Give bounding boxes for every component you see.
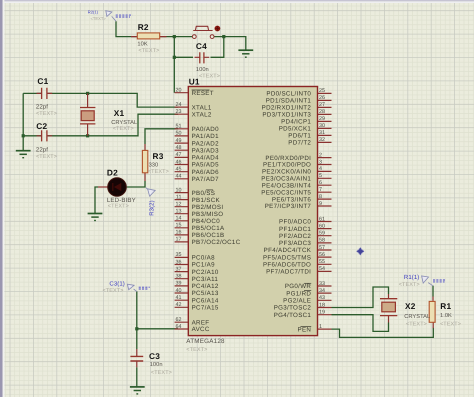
svg-text:59: 59 xyxy=(319,231,325,237)
svg-text:44: 44 xyxy=(176,174,182,180)
svg-text:<TEXT>: <TEXT> xyxy=(148,169,169,175)
svg-text:PB0/SS: PB0/SS xyxy=(192,190,216,197)
svg-text:XTAL2: XTAL2 xyxy=(192,111,212,118)
svg-text:PC6/A14: PC6/A14 xyxy=(192,297,219,304)
svg-text:42: 42 xyxy=(176,302,182,308)
svg-text:D2: D2 xyxy=(107,168,118,178)
svg-text:<TEXT>: <TEXT> xyxy=(186,347,207,353)
svg-text:<TEXT>: <TEXT> xyxy=(151,370,172,376)
svg-text:8: 8 xyxy=(319,194,322,200)
svg-text:PA0/AD0: PA0/AD0 xyxy=(192,126,219,133)
svg-text:PF4/ADC4/TCK: PF4/ADC4/TCK xyxy=(264,247,312,254)
svg-text:61: 61 xyxy=(319,216,325,222)
svg-text:PB3/MISO: PB3/MISO xyxy=(192,211,224,218)
svg-text:31: 31 xyxy=(319,130,325,136)
svg-text:29: 29 xyxy=(319,116,325,122)
svg-text:39: 39 xyxy=(176,281,182,287)
svg-text:100n: 100n xyxy=(150,362,163,368)
svg-text:PF3/ADC3: PF3/ADC3 xyxy=(279,240,311,247)
svg-text:43: 43 xyxy=(319,295,325,301)
svg-text:PA7/AD7: PA7/AD7 xyxy=(192,176,219,183)
svg-text:RESET: RESET xyxy=(192,90,214,97)
svg-text:41: 41 xyxy=(176,295,182,301)
svg-text:7: 7 xyxy=(319,187,322,193)
svg-text:12: 12 xyxy=(176,202,182,208)
svg-text:PG1/RD: PG1/RD xyxy=(286,290,311,297)
svg-text:PA1/AD1: PA1/AD1 xyxy=(192,133,219,140)
svg-text:PF0/ADC0: PF0/ADC0 xyxy=(279,219,311,226)
svg-text:PF6/ADC6/TDO: PF6/ADC6/TDO xyxy=(263,262,311,269)
svg-text:R2: R2 xyxy=(138,22,149,32)
svg-text:PA6/AD6: PA6/AD6 xyxy=(192,169,219,176)
svg-text:PG4/TOSC1: PG4/TOSC1 xyxy=(274,312,312,319)
svg-text:ATMEGA128: ATMEGA128 xyxy=(186,338,225,345)
svg-text:47: 47 xyxy=(176,152,182,158)
svg-text:R1(1): R1(1) xyxy=(404,274,420,281)
svg-text:51: 51 xyxy=(176,124,182,130)
svg-text:37: 37 xyxy=(176,266,182,272)
svg-text:PA4/AD4: PA4/AD4 xyxy=(192,155,219,162)
svg-text:XTAL1: XTAL1 xyxy=(192,104,212,111)
svg-text:PB5/OC1A: PB5/OC1A xyxy=(192,225,225,232)
svg-text:24: 24 xyxy=(176,102,182,108)
svg-text:40: 40 xyxy=(176,288,182,294)
svg-text:PC4/A12: PC4/A12 xyxy=(192,283,219,290)
svg-text:X2: X2 xyxy=(405,301,416,311)
svg-text:PF7/ADC7/TDI: PF7/ADC7/TDI xyxy=(266,269,311,276)
svg-text:10K: 10K xyxy=(137,41,147,47)
svg-text:PD0/SCL/INT0: PD0/SCL/INT0 xyxy=(266,91,311,98)
svg-text:56: 56 xyxy=(319,252,325,258)
svg-text:62: 62 xyxy=(176,317,182,323)
svg-text:50: 50 xyxy=(176,131,182,137)
svg-text:23: 23 xyxy=(176,109,182,115)
svg-text:35: 35 xyxy=(176,252,182,258)
svg-text:<TEXT>: <TEXT> xyxy=(399,282,420,288)
svg-text:330: 330 xyxy=(149,162,159,168)
svg-text:PC2/A10: PC2/A10 xyxy=(192,269,219,276)
svg-text:17: 17 xyxy=(176,237,182,243)
svg-text:1: 1 xyxy=(319,324,322,330)
svg-text:55: 55 xyxy=(319,259,325,265)
svg-text:PD2/RXD1/INT2: PD2/RXD1/INT2 xyxy=(262,105,312,112)
svg-text:34: 34 xyxy=(319,288,325,294)
svg-text:C3(1): C3(1) xyxy=(109,281,125,288)
svg-text:11: 11 xyxy=(176,194,182,200)
svg-text:C3: C3 xyxy=(149,351,160,361)
svg-text:AVCC: AVCC xyxy=(192,326,210,333)
svg-text:58: 58 xyxy=(319,238,325,244)
svg-text:PG0/WR: PG0/WR xyxy=(285,283,312,290)
svg-text:PE7/ICP3/INT7: PE7/ICP3/INT7 xyxy=(265,203,312,210)
svg-text:PD5/XCK1: PD5/XCK1 xyxy=(279,126,312,133)
svg-text:R2(1): R2(1) xyxy=(88,9,99,14)
svg-text:R3: R3 xyxy=(153,151,164,161)
svg-text:PA3/AD3: PA3/AD3 xyxy=(192,147,219,154)
svg-text:PD1/SDA/INT1: PD1/SDA/INT1 xyxy=(266,98,312,105)
svg-text:1.0K: 1.0K xyxy=(440,313,452,319)
svg-text:27: 27 xyxy=(319,102,325,108)
svg-text:60: 60 xyxy=(319,223,325,229)
svg-text:38: 38 xyxy=(176,274,182,280)
svg-text:3: 3 xyxy=(319,159,322,165)
svg-text:PG2/ALE: PG2/ALE xyxy=(283,298,311,305)
svg-text:PC1/A9: PC1/A9 xyxy=(192,262,215,269)
svg-text:PC5/A13: PC5/A13 xyxy=(192,290,219,297)
svg-text:PF2/ADC2: PF2/ADC2 xyxy=(279,233,311,240)
svg-text:25: 25 xyxy=(319,88,325,94)
svg-text:PD3/TXD1/INT3: PD3/TXD1/INT3 xyxy=(262,112,311,119)
svg-text:33: 33 xyxy=(319,281,325,287)
svg-text:PC0/A8: PC0/A8 xyxy=(192,255,215,262)
svg-text:C4: C4 xyxy=(196,41,207,51)
svg-text:20: 20 xyxy=(176,88,182,94)
svg-text:18: 18 xyxy=(319,302,325,308)
svg-text:PF1/ADC1: PF1/ADC1 xyxy=(279,226,311,233)
svg-text:16: 16 xyxy=(176,230,182,236)
svg-text:PB1/SCK: PB1/SCK xyxy=(192,197,221,204)
svg-text:<TEXT>: <TEXT> xyxy=(103,288,124,294)
svg-text:CRYSTAL: CRYSTAL xyxy=(404,314,430,320)
svg-text:PE4/OC3B/INT4: PE4/OC3B/INT4 xyxy=(262,182,312,189)
svg-text:PD6/T1: PD6/T1 xyxy=(288,133,311,140)
svg-text:49: 49 xyxy=(176,138,182,144)
svg-text:C1: C1 xyxy=(37,76,48,86)
svg-text:9: 9 xyxy=(319,201,322,207)
svg-text:X1: X1 xyxy=(114,108,125,118)
svg-text:R1: R1 xyxy=(440,301,451,311)
svg-text:13: 13 xyxy=(176,209,182,215)
svg-text:R3(2): R3(2) xyxy=(148,200,155,216)
svg-text:32: 32 xyxy=(319,137,325,143)
svg-text:<TEXT>: <TEXT> xyxy=(113,126,134,132)
svg-text:10: 10 xyxy=(176,187,182,193)
svg-text:PG3/TOSC2: PG3/TOSC2 xyxy=(274,305,312,312)
svg-text:<TEXT>: <TEXT> xyxy=(440,321,461,327)
svg-text:28: 28 xyxy=(319,109,325,115)
svg-text:PD7/T2: PD7/T2 xyxy=(288,140,311,147)
svg-text:<TEXT>: <TEXT> xyxy=(108,204,129,210)
svg-text:22pf: 22pf xyxy=(36,103,48,110)
svg-text:PB6/OC1B: PB6/OC1B xyxy=(192,232,225,239)
svg-text:PC3/A11: PC3/A11 xyxy=(192,276,219,283)
svg-text:C2: C2 xyxy=(36,121,47,131)
svg-text:PA5/AD5: PA5/AD5 xyxy=(192,162,219,169)
svg-text:<TEXT>: <TEXT> xyxy=(36,154,57,160)
svg-text:57: 57 xyxy=(319,245,325,251)
svg-text:U1: U1 xyxy=(189,77,200,87)
svg-text:36: 36 xyxy=(176,259,182,265)
svg-text:100n: 100n xyxy=(196,67,209,73)
svg-text:PC7/A15: PC7/A15 xyxy=(192,305,219,312)
svg-text:PB7/OC2/OC1C: PB7/OC2/OC1C xyxy=(192,239,241,246)
svg-text:26: 26 xyxy=(319,95,325,101)
svg-text:22pf: 22pf xyxy=(36,146,48,153)
svg-text:PB2/MOSI: PB2/MOSI xyxy=(192,204,224,211)
svg-text:PEN: PEN xyxy=(298,326,312,333)
svg-text:48: 48 xyxy=(176,145,182,151)
svg-text:PD4/ICP1: PD4/ICP1 xyxy=(281,119,311,126)
svg-text:6: 6 xyxy=(319,180,322,186)
svg-text:4: 4 xyxy=(319,166,322,172)
svg-text:<TEXT>: <TEXT> xyxy=(138,48,159,54)
svg-text:<TEXT>: <TEXT> xyxy=(36,111,57,117)
svg-text:<TEXT>: <TEXT> xyxy=(199,74,220,80)
svg-text:15: 15 xyxy=(176,223,182,229)
svg-text:PA2/AD2: PA2/AD2 xyxy=(192,140,219,147)
svg-text:30: 30 xyxy=(319,123,325,129)
svg-text:14: 14 xyxy=(176,216,182,222)
svg-text:5: 5 xyxy=(319,173,322,179)
svg-text:46: 46 xyxy=(176,159,182,165)
svg-text:PF5/ADC5/TMS: PF5/ADC5/TMS xyxy=(263,254,311,261)
svg-text:54: 54 xyxy=(319,266,325,272)
svg-text:2: 2 xyxy=(319,152,322,158)
svg-text:64: 64 xyxy=(176,324,182,330)
svg-text:19: 19 xyxy=(319,310,325,316)
svg-text:PB4/OC0: PB4/OC0 xyxy=(192,218,221,225)
svg-text:<TEXT>: <TEXT> xyxy=(91,16,107,21)
svg-text:<TEXT>: <TEXT> xyxy=(406,321,427,327)
svg-text:45: 45 xyxy=(176,167,182,173)
